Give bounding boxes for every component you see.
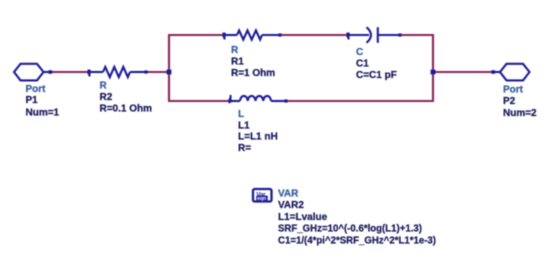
svg-text:Num=1: Num=1 — [26, 107, 60, 118]
svg-text:P1: P1 — [26, 95, 39, 106]
svg-text:L=L1 nH: L=L1 nH — [238, 132, 278, 143]
svg-text:C: C — [356, 47, 363, 58]
svg-text:C=C1 pF: C=C1 pF — [356, 70, 397, 81]
svg-text:R=0.1 Ohm: R=0.1 Ohm — [100, 104, 153, 115]
svg-text:C1: C1 — [356, 59, 369, 70]
svg-text:SRF_GHz=10^(-0.6*log(L1)+1.3): SRF_GHz=10^(-0.6*log(L1)+1.3) — [278, 224, 422, 235]
svg-text:Num=2: Num=2 — [503, 108, 537, 119]
svg-text:L: L — [238, 109, 244, 120]
svg-text:eqn: eqn — [257, 196, 266, 202]
svg-text:P2: P2 — [503, 96, 516, 107]
svg-text:C1=1/(4*pi^2*SRF_GHz^2*L1*1e-3: C1=1/(4*pi^2*SRF_GHz^2*L1*1e-3) — [278, 235, 436, 246]
svg-text:L1: L1 — [238, 120, 250, 131]
svg-text:Port: Port — [26, 84, 47, 95]
svg-text:R2: R2 — [100, 92, 113, 103]
svg-text:R: R — [231, 45, 239, 56]
svg-text:Port: Port — [503, 85, 524, 96]
svg-text:R1: R1 — [231, 57, 244, 68]
svg-text:L1=Lvalue: L1=Lvalue — [278, 212, 328, 223]
svg-text:R=1 Ohm: R=1 Ohm — [231, 68, 275, 79]
svg-text:VAR: VAR — [278, 189, 299, 200]
svg-text:VAR2: VAR2 — [278, 200, 304, 211]
svg-text:R=: R= — [238, 143, 251, 154]
svg-text:R: R — [100, 81, 108, 92]
